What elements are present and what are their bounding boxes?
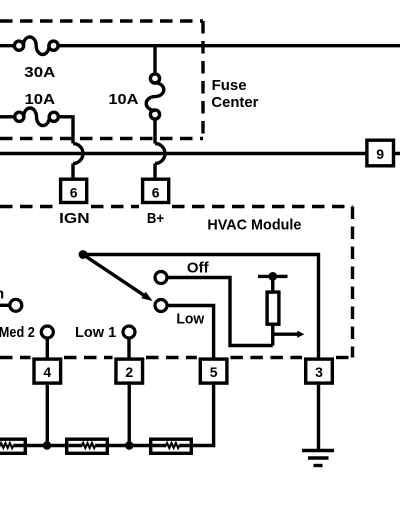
svg-text:Off: Off [187,260,210,277]
terminal Med 2 [41,326,53,338]
resistor R2 [67,439,108,453]
fuse F3 10A vertical [146,74,164,119]
svg-text:6: 6 [70,185,78,201]
svg-text:Low 1: Low 1 [75,324,116,341]
wire: connector 2 to resistor chain [128,384,131,446]
svg-text:Low: Low [176,311,204,328]
resistor R3 [151,439,192,453]
svg-text:n: n [0,286,4,303]
wire: pivot feed to connector 3 [83,255,319,358]
wire: second feed y=116 [0,115,14,118]
wire: drop from top feed to F3 [153,46,156,73]
terminal (label cut at left edge) [10,299,22,311]
wire: Low 1 to connector 2 [127,338,130,358]
wire: from F2 to IGN connector with hop over feed wire [58,117,73,178]
connector box 2 [116,359,143,383]
terminal Low 1 [123,326,135,338]
svg-text:9: 9 [376,146,384,162]
fuse F2 10A [15,108,59,126]
svg-text:HVAC Module: HVAC Module [207,216,301,233]
svg-text:B+: B+ [147,210,164,227]
switch pivot dot [79,250,88,259]
connector box 9 [367,140,394,166]
junction dot (connector 4 tap) [43,441,52,450]
wire: connector 4 to resistor chain [46,384,49,446]
fuse F1 30A [14,37,58,55]
svg-text:5: 5 [210,364,218,380]
wire: connector 5 to resistor chain [193,384,214,446]
wire: connector 3 to ground [317,384,320,450]
wire: bar to resistor R4 [271,276,274,291]
wiper tap arrow [273,331,305,338]
label Fuse Center [211,77,258,111]
connector box 6 (IGN) [61,179,87,202]
resistor R4 body [267,292,279,324]
svg-text:6: 6 [152,185,160,201]
svg-text:Fuse: Fuse [212,77,247,94]
wire: R4 bottom lead [271,325,274,346]
svg-text:IGN: IGN [59,210,89,227]
svg-text:3: 3 [315,364,323,380]
wire: Off terminal to resistor bottom [167,278,272,346]
svg-text:2: 2 [125,364,133,380]
svg-text:Med 2: Med 2 [0,324,35,341]
resistor R1 (clipped at left edge) [0,439,25,453]
connector box 3 [306,359,333,383]
terminal Low [155,300,167,312]
resistor R4 top bar [258,275,288,278]
wire hop (B+ drop) [155,144,165,164]
wire: resistor chain bus y=445.5 [27,444,149,447]
terminal Off [155,272,167,284]
switch wiper arrow [86,256,153,301]
wire: top feed y=45.7 [0,44,400,47]
svg-text:4: 4 [43,364,51,380]
HVAC module dashed box [0,207,353,358]
connector box 5 [200,359,227,383]
svg-text:30A: 30A [24,64,55,81]
junction dot (connector 2 tap) [125,441,134,450]
ground symbol [302,451,334,466]
wire: from F3 to B+ connector with hop [153,119,156,178]
fuse center dashed box [0,21,203,139]
svg-text:Center: Center [211,94,258,111]
svg-text:10A: 10A [25,91,56,108]
wire hop (IGN drop) [73,144,83,164]
wire: cut terminal to left edge [0,304,10,307]
wire: second horizontal run y=153.5 to connector 9 [0,152,400,155]
connector box 6 (B+) [143,179,169,202]
wire: Low terminal to connector 5 [167,306,213,359]
svg-text:10A: 10A [108,91,138,108]
connector box 4 [34,359,61,383]
junction dot on bar [268,272,277,281]
wire: Med 2 to connector 4 [46,338,49,358]
